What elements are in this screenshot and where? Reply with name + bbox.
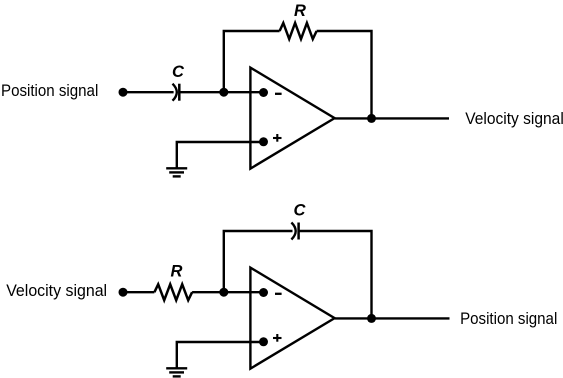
node: non-inverting input dot (top)	[259, 137, 268, 146]
wire: op-amp output (top)	[335, 117, 449, 119]
node: top input terminal	[119, 88, 128, 97]
wire: junction up and left feedback segment (top)	[224, 31, 280, 92]
capacitor C1 (top series)	[173, 84, 180, 101]
node: non-inverting input dot (bottom)	[259, 337, 268, 346]
ground symbol (bottom)	[166, 368, 187, 376]
wire: junction up and left feedback segment (bottom)	[224, 231, 293, 292]
svg-text:Position signal: Position signal	[1, 81, 98, 100]
wire: capacitor to inverting input	[179, 91, 263, 93]
svg-text:C: C	[294, 202, 307, 220]
svg-text:C: C	[172, 63, 185, 81]
svg-text:R: R	[171, 263, 183, 281]
resistor R2 (bottom series)	[154, 284, 192, 300]
node: bottom input terminal	[119, 288, 128, 297]
op-amp U2 (integrator)	[250, 268, 334, 369]
plus sign (top op-amp)	[273, 134, 282, 142]
wire: ground elbow to non-inverting input (bottom)	[177, 342, 264, 368]
node: inverting input dot (bottom)	[259, 288, 268, 297]
minus sign (bottom op-amp)	[275, 293, 282, 295]
node: top output junction	[367, 114, 376, 123]
minus sign (top op-amp)	[275, 93, 282, 95]
node: bottom output junction	[367, 314, 376, 323]
node: inverting input dot (top)	[259, 88, 268, 97]
op-amp U1 (differentiator)	[250, 68, 334, 169]
svg-text:Velocity signal: Velocity signal	[6, 281, 107, 300]
node: top summing junction	[219, 88, 228, 97]
svg-text:Velocity signal: Velocity signal	[465, 109, 563, 128]
wire: bottom input terminal to resistor	[123, 291, 154, 293]
plus sign (bottom op-amp)	[273, 334, 282, 342]
resistor R1 (top feedback)	[280, 23, 317, 39]
capacitor C2 (bottom feedback)	[291, 223, 298, 240]
wire: feedback right segment down to output node (top)	[317, 31, 372, 118]
wire: top input terminal to capacitor	[123, 91, 174, 93]
wire: feedback right segment down to output node (bottom)	[299, 231, 372, 318]
svg-text:R: R	[294, 2, 306, 20]
ground symbol (top)	[166, 168, 187, 176]
wire: op-amp output (bottom)	[335, 317, 450, 319]
node: bottom summing junction	[219, 288, 228, 297]
wire: resistor to inverting input (bottom)	[192, 291, 263, 293]
wire: ground elbow to non-inverting input (top)	[177, 142, 264, 168]
svg-text:Position signal: Position signal	[460, 309, 557, 328]
